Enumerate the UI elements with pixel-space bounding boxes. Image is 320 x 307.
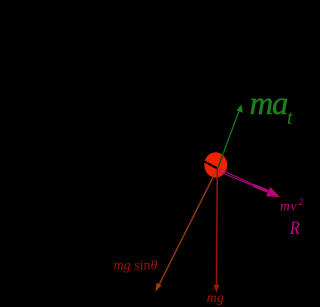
svg-text:mv: mv [280,199,298,214]
vector ma_t shaft (green tangential arrow) [218,108,241,169]
vector ma_t head [236,105,243,113]
vector mv2/R head [266,187,280,197]
svg-text:2: 2 [299,198,304,208]
vector mg sin(theta) shaft (brown) [159,168,218,285]
svg-text:ma: ma [250,86,288,122]
svg-text:mg: mg [207,291,224,306]
string (black line through ball) [198,158,218,169]
vector mv2/R lower shaft line (magenta) [219,172,255,187]
vector mg sin(theta) head [155,283,161,292]
vector mv2/R upper shaft line (magenta) [218,168,255,185]
vector mg shaft (dark red vertical) [216,168,219,285]
vector mg head [213,285,219,293]
svg-text:mg sinθ: mg sinθ [114,259,158,274]
svg-text:t: t [287,107,293,129]
vector ma_t shaft segment over ball (darker) [218,152,224,168]
svg-text:R: R [289,218,300,239]
ball (red bob) [204,152,227,177]
vector mv2/R neck [254,186,268,192]
